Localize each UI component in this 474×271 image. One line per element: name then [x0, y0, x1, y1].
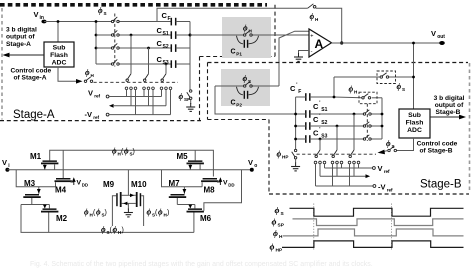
svg-text:A: A: [315, 37, 324, 51]
svg-text:V: V: [378, 164, 383, 173]
wire -Vref bus: [109, 114, 170, 116]
label phi_SP waveform: [272, 217, 285, 229]
svg-text:V: V: [248, 158, 253, 167]
switch ladder B2: [332, 150, 337, 158]
capacitor CS3: [157, 55, 176, 68]
svg-text:3 b digital: 3 b digital: [6, 27, 37, 34]
svg-text:ϕ: ϕ: [386, 139, 391, 148]
capacitor C'F: [290, 83, 310, 101]
transistor M5: [177, 150, 204, 170]
node dots on distribution: [95, 20, 98, 49]
label phi_SP: [179, 92, 191, 102]
node Vi dot: [5, 168, 9, 172]
wire C'S2 rail: [296, 125, 382, 127]
transistor M1: [30, 152, 58, 170]
wire M8 left lead: [201, 182, 203, 187]
svg-text:V: V: [2, 158, 7, 167]
wire rail2 CS1: [96, 34, 112, 36]
svg-text:F: F: [298, 89, 301, 95]
switch ladder B3: [315, 150, 320, 158]
svg-text:DD: DD: [228, 182, 234, 187]
capacitor C'S2: [306, 114, 328, 130]
svg-text:H: H: [315, 17, 319, 22]
svg-text:C: C: [290, 84, 296, 93]
wire V'ref bus B: [325, 167, 373, 169]
WAVEFORMS: [30, 204, 464, 269]
wire CP2 right leg up to op-amp input: [279, 31, 309, 86]
arrow M9-M10 bottom: [123, 202, 127, 206]
svg-text:ϕ: ϕ: [101, 225, 106, 234]
label phi_S(phi_H) bottom rail: [101, 225, 124, 235]
wire Vo feedback to M6: [204, 170, 242, 211]
switch C'S1 right: [363, 110, 371, 115]
wire common bus B: [320, 175, 366, 177]
bottom plate vertical 1: [130, 34, 133, 74]
wire common drops: [131, 90, 166, 106]
transistor M4: [55, 150, 74, 194]
svg-text:S: S: [402, 87, 405, 92]
svg-text:H: H: [91, 73, 95, 78]
contact circles group B2: [331, 161, 343, 164]
Sub Flash ADC box Stage-B: [399, 109, 430, 138]
svg-text:ϕ: ϕ: [124, 147, 129, 156]
svg-text:-V: -V: [378, 183, 386, 192]
ground phi_HP: [291, 163, 300, 171]
svg-text:Fig. 4. Schematic of the two: Fig. 4. Schematic of the two pipelined s…: [30, 261, 373, 268]
wire -Vref bus B: [316, 185, 374, 187]
Stage-B box top border: [208, 62, 469, 64]
wire rail3 CS2: [96, 47, 112, 49]
wire output to Vout: [332, 42, 442, 44]
Sub Flash ADC box Stage-A: [44, 42, 74, 67]
switch phi_S rail3: [111, 43, 119, 49]
arrow M9-M10 top: [130, 194, 134, 198]
svg-text:output of: output of: [6, 34, 35, 41]
reference dotted line 2: [391, 204, 393, 252]
wire op-amp plus input to ground: [299, 51, 310, 55]
Stage-A box step border horizontal: [200, 56, 276, 58]
contact circles group 1: [125, 87, 137, 90]
wire C'F vertical x=334: [333, 77, 335, 97]
capacitor CP1: [231, 36, 259, 57]
node Vin dot: [41, 20, 46, 24]
switch C'S3 right: [363, 135, 371, 140]
wire C'S1 rail: [296, 113, 382, 115]
svg-text:-V: -V: [85, 110, 93, 119]
contact circles group B1: [348, 161, 360, 164]
svg-text:S1: S1: [163, 31, 169, 37]
label Vout: [431, 29, 445, 40]
svg-text:3 b digital: 3 b digital: [434, 95, 465, 102]
svg-text:V: V: [34, 10, 39, 19]
svg-text:ϕ: ϕ: [85, 68, 90, 77]
label 3 b digital output of Stage-B: [434, 95, 465, 116]
svg-text:SP: SP: [278, 223, 285, 229]
capacitor CS1: [157, 26, 176, 39]
wire M4 left lead: [55, 182, 57, 187]
Stage-B box left border lower: [268, 120, 270, 195]
waveform phi_S: [290, 208, 464, 216]
label phi_S control B: [386, 139, 395, 149]
wire C'F feedback rail y=77: [334, 76, 414, 78]
svg-text:ϕ: ϕ: [113, 225, 118, 234]
wire CF left plate to top feedback: [157, 8, 308, 21]
arrow control code B: [378, 150, 389, 155]
STAGE A AREA: [0, 5, 309, 121]
svg-text:Control code: Control code: [11, 67, 52, 74]
switch phi_S rail2: [111, 30, 119, 36]
label phi_H waveform: [273, 228, 283, 240]
svg-text:output of: output of: [435, 102, 464, 109]
label phi_S sampling clock: [98, 6, 107, 16]
ground M9-M10: [124, 209, 133, 217]
switch C'S2 right: [363, 122, 371, 127]
wire feedback right segment: [316, 8, 342, 43]
switch phi_S rail1: [111, 17, 119, 23]
wire M7 to M6 gate: [177, 204, 195, 206]
svg-text:ϕ: ϕ: [158, 208, 163, 217]
label phi_H CP1: [243, 24, 253, 34]
bottom plate vertical 3: [165, 63, 168, 74]
arrow common bus B: [366, 174, 371, 178]
svg-text:-: -: [311, 49, 313, 55]
svg-text:M10: M10: [131, 180, 147, 189]
wire C'S3 rail: [296, 138, 382, 140]
dashed box phi_H switch: [359, 92, 377, 104]
dashed gate line phi_S column: [114, 14, 116, 67]
wire right branch from rail: [162, 170, 203, 187]
bottom plate vertical B1: [353, 113, 356, 150]
wire ADC control down and right: [58, 67, 77, 81]
switch phi_S control B: [388, 146, 397, 152]
label 3 b digital output of Stage-A: [6, 27, 37, 48]
transistor M10: [131, 180, 147, 226]
svg-text:ϕ: ϕ: [112, 147, 117, 156]
svg-text:C: C: [313, 129, 319, 138]
label -Vref: [85, 110, 100, 120]
dashed control bus to ladder switches B: [297, 153, 377, 155]
label phi_H C'F switch: [349, 85, 359, 95]
wire M9-M10 center down: [127, 203, 129, 209]
svg-text:S1: S1: [321, 107, 327, 113]
bottom plate vertical B3: [319, 138, 322, 150]
Stage-B box jog horizontal: [208, 119, 270, 121]
TRANSISTOR CIRCUIT: [2, 147, 257, 236]
label Control code of Stage-B: [417, 141, 458, 155]
svg-text:ϕ: ϕ: [243, 24, 248, 33]
svg-text:DD: DD: [82, 182, 88, 187]
wire C'F rail: [296, 96, 382, 99]
node dots right vertical: [381, 113, 384, 128]
node Vout dot: [439, 41, 445, 45]
waveform phi_HP: [282, 241, 464, 248]
wire Vref drops: [127, 90, 162, 97]
svg-text:Flash: Flash: [406, 120, 424, 127]
transistor M7: [169, 179, 187, 205]
dashed box phi_S feedback switch: [377, 71, 396, 84]
switch ladder 1: [126, 74, 131, 82]
capacitor CF: [162, 11, 176, 25]
svg-text:out: out: [437, 34, 445, 40]
contact circles group B3: [314, 161, 326, 164]
svg-text:of Stage-A: of Stage-A: [14, 74, 47, 81]
svg-text:o: o: [254, 163, 257, 169]
wire phi_HP to ground: [295, 159, 297, 163]
arrow common bus: [109, 104, 114, 108]
switch ladder 2: [144, 74, 149, 82]
node dot at x58: [57, 20, 60, 23]
svg-text:M4: M4: [55, 186, 67, 195]
svg-text:ADC: ADC: [52, 60, 67, 67]
svg-text:C: C: [313, 115, 319, 124]
Stage-B box left border upper: [207, 63, 209, 120]
svg-text:M9: M9: [103, 180, 115, 189]
svg-text:Stage-A: Stage-A: [13, 109, 55, 121]
switch ladder 3: [161, 74, 166, 82]
label phi_S feedback: [397, 82, 406, 92]
svg-text:+: +: [310, 34, 313, 40]
arrow digital output Stage-B: [430, 115, 466, 120]
svg-text:ADC: ADC: [407, 127, 422, 134]
node dot feedback at x=413.5: [412, 76, 415, 79]
svg-text:): ): [122, 227, 124, 234]
Stage-A box left border (light gray dashed): [1, 8, 3, 120]
arrow control code: [76, 79, 83, 84]
svg-text:': ': [319, 127, 320, 133]
shaded box CP1: [222, 17, 271, 58]
svg-text:': ': [319, 114, 320, 120]
wire gate boost rail top: [50, 150, 214, 176]
shaded box CP2: [221, 69, 270, 106]
switch phi_H C'F: [362, 94, 371, 99]
svg-text:ref: ref: [93, 115, 99, 120]
svg-text:H: H: [279, 234, 283, 240]
supply arrow VDD left: [72, 177, 76, 185]
ground phi_SP: [186, 103, 195, 111]
MIDDLE AREA: [215, 4, 445, 114]
svg-text:ϕ: ϕ: [273, 228, 278, 238]
svg-text:M5: M5: [177, 152, 189, 161]
svg-text:V: V: [431, 29, 436, 38]
wire -Vref drops: [136, 90, 171, 115]
svg-text:S: S: [104, 11, 107, 16]
switch phi_H feedback top: [308, 4, 316, 8]
node dots left vertical: [294, 113, 297, 141]
svg-text:Stage-A: Stage-A: [6, 41, 31, 48]
wire phi_SP to ground: [190, 100, 192, 105]
svg-text:ϕ: ϕ: [147, 208, 152, 217]
svg-text:H: H: [354, 90, 358, 95]
svg-text:M6: M6: [200, 214, 212, 223]
label phi_S(phi_H) M10 gate: [147, 208, 170, 218]
wire M3 to M2 gate: [21, 204, 49, 206]
svg-text:ϕ: ϕ: [243, 74, 248, 83]
wire Vref bus: [109, 96, 161, 98]
svg-text:Stage-B: Stage-B: [436, 109, 461, 116]
Stage-B box bottom border: [269, 193, 469, 195]
terminal Vref circle: [106, 95, 109, 98]
dashed control bus to ladder switches: [94, 81, 179, 83]
svg-text:HP: HP: [282, 155, 288, 160]
node dot at Vout branch: [412, 42, 415, 45]
wire V'ref drops B: [325, 164, 359, 168]
contact circles group 2: [143, 87, 155, 90]
svg-text:M8: M8: [204, 186, 216, 195]
switch phi_S rail4: [111, 59, 119, 65]
capacitor CP2: [231, 87, 259, 108]
transistor M6: [187, 205, 212, 233]
switch phi_S feedback: [380, 73, 389, 78]
terminal V'ref circle: [373, 167, 376, 170]
wire summing vertical x=190: [189, 22, 191, 91]
label phi_S waveform: [275, 205, 285, 217]
label phi_H(phi_S) top: [112, 147, 135, 157]
wire summing to CP1 switch: [190, 34, 309, 36]
dashed gate line phi_H column Stage-B: [366, 104, 368, 141]
node output dot: [340, 41, 343, 44]
svg-text:M3: M3: [24, 179, 36, 188]
transistor M3: [23, 179, 40, 205]
svg-text:ϕ: ϕ: [310, 12, 315, 21]
svg-text:S: S: [392, 144, 395, 149]
Stage-A box right border lower segment: [199, 57, 201, 121]
node dot C'F at x334: [333, 96, 336, 99]
arrow into M7: [183, 187, 187, 194]
svg-text:Sub: Sub: [53, 45, 66, 52]
svg-text:F: F: [168, 16, 171, 22]
label phi_HP: [277, 150, 289, 160]
bottom plate vertical 2: [147, 47, 150, 74]
transistor M9: [103, 180, 136, 226]
wire ADC-B control down and left: [397, 138, 414, 151]
terminal -Vref circle: [373, 185, 376, 188]
svg-text:ref: ref: [387, 188, 393, 193]
wire right plates vertical x=382: [381, 98, 383, 139]
svg-text:M1: M1: [30, 152, 42, 161]
switch phi_H control: [84, 77, 92, 83]
transistor M8: [201, 178, 220, 195]
wire rail1 after switch to CF: [119, 21, 172, 23]
contact circles group 3: [160, 87, 172, 90]
Stage-A box bottom border: [0, 120, 201, 122]
label Vo: [248, 158, 257, 169]
svg-text:ϕ: ϕ: [277, 150, 282, 159]
label Control code of Stage-A: [11, 67, 52, 81]
svg-text:): ): [105, 210, 107, 217]
svg-text:P1: P1: [236, 52, 242, 57]
svg-text:ϕ: ϕ: [96, 208, 101, 217]
wire CP2 rail: [215, 85, 244, 87]
svg-text:P2: P2: [236, 103, 242, 108]
wire Vin rail y=21.5: [44, 21, 112, 23]
Stage-B box right border (light gray dashed): [469, 63, 471, 193]
wire common bus: [113, 105, 166, 107]
svg-text:Control code: Control code: [417, 141, 458, 148]
waveform phi_H: [283, 229, 464, 236]
label phi_S CP2: [243, 74, 252, 84]
svg-text:C: C: [231, 100, 236, 107]
svg-text:ϕ: ϕ: [98, 6, 103, 15]
svg-text:ϕ: ϕ: [272, 217, 277, 227]
svg-text:ϕ: ϕ: [275, 205, 280, 215]
svg-text:S: S: [281, 211, 285, 217]
svg-text:': ': [319, 101, 320, 107]
label Vref B: [378, 164, 391, 174]
label phi_H feedback: [310, 12, 320, 22]
switch phi_SP: [187, 90, 192, 100]
node Vo dot: [250, 168, 254, 172]
arrow digital output Stage-A: [3, 53, 45, 58]
svg-text:C: C: [313, 102, 319, 111]
STAGE B AREA: [208, 42, 470, 194]
svg-text:M2: M2: [56, 214, 68, 223]
wire -Vref drops B: [316, 164, 350, 186]
svg-text:C: C: [231, 49, 236, 56]
svg-text:V: V: [88, 89, 93, 98]
ground op-amp: [294, 53, 303, 61]
label Vin: [34, 10, 44, 21]
svg-text:HP: HP: [276, 248, 283, 254]
switch phi_HP: [292, 149, 297, 159]
wire M9-M10 center up to rail: [127, 170, 129, 196]
label Vref: [88, 89, 101, 99]
wire rail4 CS3: [96, 63, 112, 65]
svg-text:): ): [133, 149, 135, 156]
capacitor C'S3: [306, 127, 328, 143]
svg-text:M7: M7: [169, 179, 181, 188]
wire left branch from rail: [16, 170, 55, 187]
wire CP2 left leg down to Stage-B input: [215, 86, 296, 114]
capacitor CS2: [157, 39, 176, 52]
transistor M2: [41, 205, 68, 233]
switch ladder B1: [349, 150, 354, 158]
label -Vref B: [378, 183, 393, 193]
wire input distribution vertical x=96: [95, 22, 97, 65]
bottom plate vertical B2: [336, 125, 339, 150]
wire summing through CP1 box redraw: [222, 34, 244, 36]
label VDD right: [223, 180, 235, 188]
Stage-A box top border (thick dashed): [0, 3, 267, 7]
terminal -Vref circle: [106, 113, 109, 116]
svg-text:): ): [167, 210, 169, 217]
svg-text:ϕ: ϕ: [84, 208, 89, 217]
op-amp U1: [309, 29, 332, 57]
svg-text:S2: S2: [321, 120, 327, 126]
wire main rail Vi to Vo: [7, 169, 251, 171]
label Vi: [2, 158, 10, 169]
label phi_HP waveform: [270, 242, 283, 254]
svg-text:': ': [296, 83, 297, 89]
svg-text:ϕ: ϕ: [397, 82, 402, 91]
svg-text:ϕ: ϕ: [349, 85, 354, 94]
label phi_H(phi_S) M9 gate: [84, 208, 107, 218]
switch phi_S CP2: [244, 82, 253, 88]
svg-text:ref: ref: [384, 169, 390, 174]
svg-text:ref: ref: [94, 94, 100, 99]
svg-text:Flash: Flash: [50, 52, 68, 59]
label phi_H control: [85, 68, 95, 78]
reference dotted line 1: [313, 204, 315, 252]
switch phi_H CP1: [244, 31, 253, 37]
Stage-A box right border upper segment: [274, 5, 276, 57]
wire cap right plates to summing vertical: [176, 22, 190, 65]
wire left down to bottom rail: [21, 205, 194, 233]
supply arrow VDD right: [219, 177, 223, 185]
wire common drops B: [320, 164, 354, 176]
capacitor C'S1: [306, 101, 328, 118]
wire left plates vertical x=295.6: [295, 97, 297, 149]
svg-text:of Stage-B: of Stage-B: [420, 148, 453, 155]
